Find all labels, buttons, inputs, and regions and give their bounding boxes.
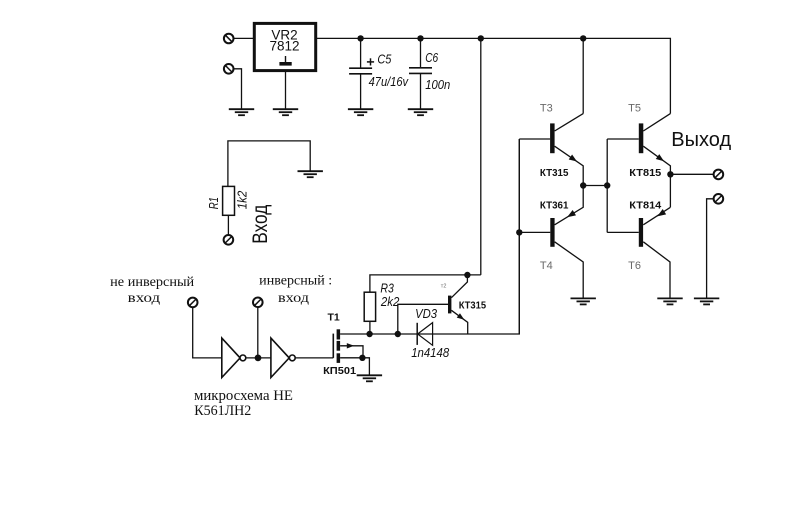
svg-text:КТ315: КТ315	[540, 167, 569, 179]
svg-text:100n: 100n	[425, 77, 450, 92]
svg-text:инверсный :: инверсный :	[259, 274, 332, 289]
svg-text:т2: т2	[441, 283, 447, 289]
svg-text:T1: T1	[328, 311, 340, 323]
svg-text:R1: R1	[207, 197, 221, 209]
svg-text:вход: вход	[128, 291, 161, 306]
svg-text:КТ815: КТ815	[629, 167, 661, 179]
svg-text:Выход: Выход	[671, 129, 731, 151]
svg-text:1n4148: 1n4148	[411, 345, 450, 360]
svg-text:2k2: 2k2	[380, 294, 400, 309]
svg-text:T4: T4	[540, 260, 553, 272]
svg-text:1k2: 1k2	[236, 191, 250, 210]
svg-text:47u/16v: 47u/16v	[369, 74, 410, 89]
svg-text:T3: T3	[540, 103, 553, 115]
svg-text:T6: T6	[628, 260, 641, 272]
svg-text:КТ315: КТ315	[459, 299, 487, 311]
svg-text:КТ361: КТ361	[540, 199, 569, 211]
svg-text:C5: C5	[377, 52, 392, 67]
svg-text:C6: C6	[425, 50, 439, 65]
svg-text:К561ЛН2: К561ЛН2	[194, 403, 251, 419]
svg-text:микросхема НЕ: микросхема НЕ	[194, 388, 293, 404]
svg-text:КТ814: КТ814	[629, 199, 661, 211]
svg-text:VD3: VD3	[415, 306, 438, 321]
svg-text:T5: T5	[628, 103, 641, 115]
svg-text:Вход: Вход	[249, 205, 272, 244]
svg-text:не инверсный: не инверсный	[110, 275, 195, 290]
svg-text:КП501: КП501	[323, 365, 356, 377]
svg-text:вход: вход	[278, 291, 309, 306]
svg-text:7812: 7812	[269, 38, 299, 53]
